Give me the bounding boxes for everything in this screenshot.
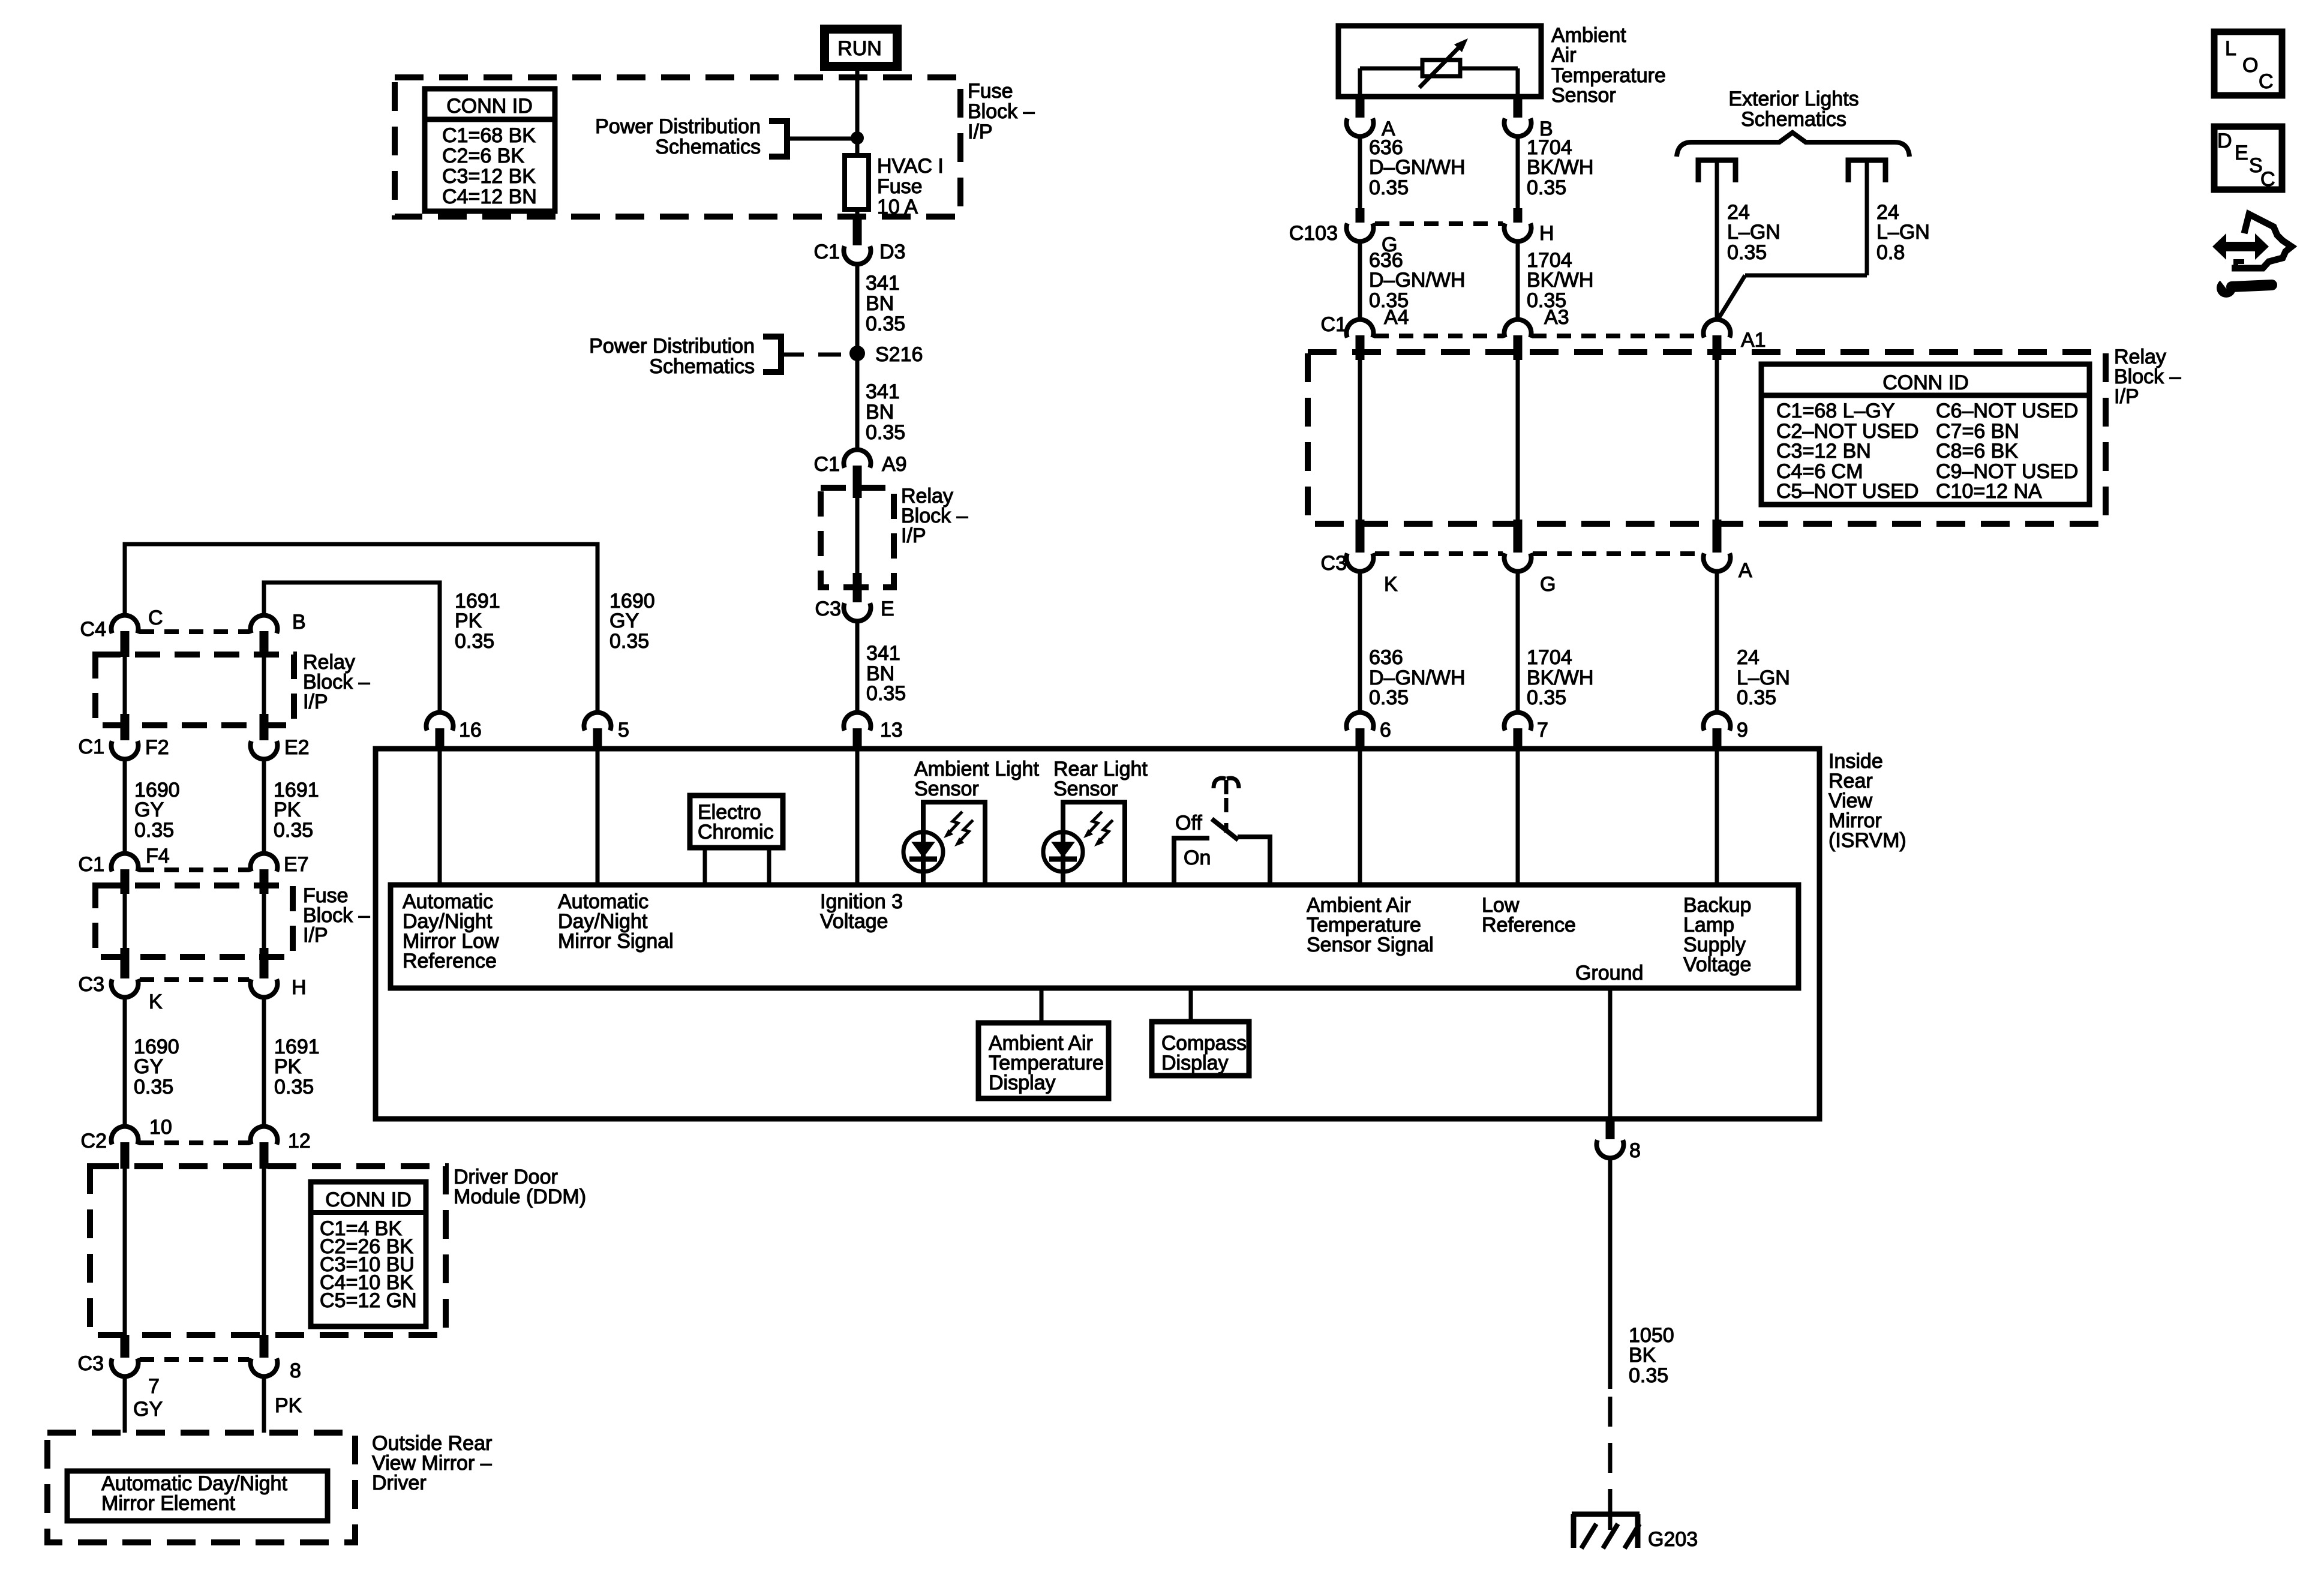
svg-text:9: 9 <box>1737 719 1748 742</box>
exterior lights schematics label <box>1728 88 1858 131</box>
svg-text:I/P: I/P <box>303 924 328 947</box>
pin function label: ambient air temperature sensor signal <box>1307 894 1434 956</box>
ISRVM label <box>1828 750 1906 852</box>
CONN ID table (fuse block) <box>425 89 555 211</box>
vehicle outline icon <box>2232 214 2292 268</box>
svg-text:C5=12 GN: C5=12 GN <box>320 1289 417 1312</box>
svg-text:PK: PK <box>274 798 301 821</box>
pin function label: low reference <box>1482 894 1576 936</box>
svg-text:RUN: RUN <box>837 37 882 60</box>
svg-text:D–GN/WH: D–GN/WH <box>1369 156 1466 179</box>
svg-text:BN: BN <box>866 292 894 315</box>
rear light sensor photodiode <box>1043 802 1125 886</box>
wire 1690 GY 0.35 (F2 to F4) <box>125 761 180 852</box>
svg-text:341: 341 <box>866 380 900 403</box>
wire 1704 BK/WH 0.35 (B to C103) <box>1518 136 1593 209</box>
wire 1691 PK 0.35 (pin 16 to B) <box>264 583 500 711</box>
svg-text:PK: PK <box>275 1394 302 1417</box>
svg-text:I/P: I/P <box>303 691 328 713</box>
svg-text:C4=12 BN: C4=12 BN <box>442 185 537 208</box>
connector pin B (AAT sensor) <box>1505 98 1553 140</box>
svg-text:BK: BK <box>1629 1344 1656 1367</box>
svg-text:E7: E7 <box>284 853 309 876</box>
wire PK (8 to mirror) <box>264 1378 302 1433</box>
relay block label (right) <box>2114 346 2181 408</box>
power distribution schematics callout 1 <box>595 115 857 158</box>
wire 341 BN 0.35 lower <box>857 623 906 711</box>
ambient light sensor photodiode <box>903 802 985 886</box>
svg-text:C8=6 BK: C8=6 BK <box>1936 440 2018 463</box>
svg-text:0.35: 0.35 <box>866 313 905 335</box>
connector C3 A (right) <box>1704 520 1753 582</box>
svg-text:A1: A1 <box>1741 329 1766 352</box>
connector C103 G <box>1289 208 1398 256</box>
svg-text:C3=12 BK: C3=12 BK <box>442 165 536 188</box>
off-page terminal right (exterior lights) <box>1848 160 1885 182</box>
svg-text:Fuse: Fuse <box>968 80 1013 103</box>
electro chromic element <box>690 795 783 885</box>
fuse block label (left) <box>303 884 370 947</box>
ISRVM pin label bar <box>391 885 1798 988</box>
svg-text:Driver: Driver <box>372 1472 427 1494</box>
svg-text:C3: C3 <box>1321 552 1347 575</box>
internal wires pins to bar <box>440 751 1717 885</box>
CONN ID table (DDM) <box>311 1182 426 1326</box>
dashed connector line C103 <box>1375 221 1503 226</box>
pin function label: backup lamp supply voltage <box>1683 894 1751 976</box>
ambient air temperature display <box>978 990 1109 1098</box>
svg-text:Mirror Element: Mirror Element <box>101 1492 235 1515</box>
svg-text:13: 13 <box>880 719 903 742</box>
svg-text:B: B <box>292 611 306 634</box>
connector C1 E7 <box>251 853 309 894</box>
svg-text:0.35: 0.35 <box>866 682 906 705</box>
connector C1 E2 <box>251 714 310 759</box>
driver door module label <box>454 1166 586 1208</box>
wire 1690 GY 0.35 (K to 10) <box>125 999 179 1125</box>
wire 1691 PK 0.35 (E2 to E7) <box>264 761 319 852</box>
svg-text:K: K <box>149 990 163 1013</box>
svg-text:C1: C1 <box>1321 313 1347 336</box>
svg-text:6: 6 <box>1380 719 1391 742</box>
connector C1 A1 <box>1704 320 1766 360</box>
svg-text:BN: BN <box>866 401 894 424</box>
connector C1 A4 <box>1321 306 1409 360</box>
svg-text:F2: F2 <box>145 736 169 759</box>
svg-text:GY: GY <box>609 610 639 632</box>
svg-text:24: 24 <box>1737 646 1759 669</box>
svg-text:A4: A4 <box>1384 306 1409 329</box>
connector C1 F4 <box>79 845 170 894</box>
svg-text:Exterior Lights: Exterior Lights <box>1728 88 1858 110</box>
svg-text:0.35: 0.35 <box>1727 241 1767 264</box>
svg-text:0.35: 0.35 <box>1369 176 1409 199</box>
wire 636 D-GN/WH 0.35 (A to C103) <box>1360 136 1466 209</box>
svg-text:Schematics: Schematics <box>655 136 761 158</box>
svg-text:(ISRVM): (ISRVM) <box>1828 829 1906 852</box>
pin 5 connector <box>584 713 629 751</box>
svg-text:5: 5 <box>618 719 629 742</box>
compass display <box>1152 990 1249 1076</box>
svg-text:D: D <box>2217 130 2232 152</box>
svg-text:E2: E2 <box>284 736 310 759</box>
svg-text:C3: C3 <box>79 973 104 996</box>
svg-text:Off: Off <box>1175 812 1202 834</box>
svg-text:0.35: 0.35 <box>1527 176 1566 199</box>
svg-text:Fuse: Fuse <box>877 175 923 198</box>
svg-text:CONN ID: CONN ID <box>446 95 533 118</box>
svg-text:0.35: 0.35 <box>455 630 494 653</box>
connector C3 7 <box>78 1335 160 1398</box>
ground G203 <box>1572 1509 1698 1551</box>
dashed connector line C1 row <box>1374 334 1703 338</box>
connector C103 H <box>1505 208 1554 245</box>
relay block label (center) <box>901 485 968 547</box>
svg-text:Power Distribution: Power Distribution <box>595 115 761 138</box>
svg-text:0.8: 0.8 <box>1876 241 1905 264</box>
svg-text:C3: C3 <box>78 1352 104 1375</box>
svg-text:1704: 1704 <box>1527 646 1572 669</box>
connector C1 F2 <box>79 714 169 759</box>
relay block I/P dashed box (left) <box>95 655 294 725</box>
variable resistor element R (AAT sensor) <box>1360 38 1518 97</box>
svg-text:BK/WH: BK/WH <box>1527 269 1593 292</box>
LOC icon <box>2214 32 2282 95</box>
svg-text:C: C <box>2260 168 2275 191</box>
svg-text:H: H <box>292 976 307 999</box>
dashed connector line C1 F4 row <box>140 867 249 872</box>
wire 636 D-GN/WH 0.35 (to pin 6) <box>1360 573 1466 711</box>
wires through relay block (left) <box>125 657 264 715</box>
wire 24 L-GN 0.8 (exterior lights) <box>1718 160 1930 319</box>
svg-text:G: G <box>1540 573 1556 596</box>
DESC icon <box>2214 127 2282 191</box>
connector C3 H (left) <box>251 948 307 999</box>
wire 341 BN 0.35 mid <box>866 380 905 444</box>
wire 636 D-GN/WH 0.35 (C103 to C1) <box>1360 243 1466 318</box>
svg-text:C1: C1 <box>79 853 104 876</box>
svg-text:Reference: Reference <box>403 950 497 972</box>
svg-text:0.35: 0.35 <box>609 630 649 653</box>
connector C2 10 <box>81 1116 172 1169</box>
svg-text:Block –: Block – <box>968 100 1035 123</box>
wire RUN to fuse <box>855 71 860 157</box>
off/on switch <box>1174 778 1270 887</box>
svg-text:0.35: 0.35 <box>1369 686 1409 709</box>
pin function label: automatic day/night mirror low reference <box>403 890 499 972</box>
svg-text:8: 8 <box>290 1359 301 1382</box>
svg-text:I/P: I/P <box>2114 385 2139 408</box>
svg-text:7: 7 <box>148 1375 160 1398</box>
connector pin A (AAT sensor) <box>1347 98 1396 140</box>
wires through DDM <box>125 1169 264 1335</box>
relay block label (left) <box>303 651 370 713</box>
outside rear view mirror driver dashed box <box>47 1433 355 1542</box>
svg-text:0.35: 0.35 <box>1629 1364 1668 1387</box>
svg-text:HVAC I: HVAC I <box>877 155 944 178</box>
svg-text:Mirror Signal: Mirror Signal <box>558 930 674 953</box>
fuse block I/P dashed box <box>395 77 960 217</box>
svg-text:On: On <box>1184 846 1211 869</box>
relay block I/P dashed box (right) <box>1308 352 2106 524</box>
svg-text:E: E <box>2235 142 2248 164</box>
svg-text:C6–NOT USED: C6–NOT USED <box>1936 400 2078 422</box>
CONN ID table (relay block) <box>1761 364 2089 505</box>
svg-text:H: H <box>1539 222 1554 245</box>
dashed connector line C3 row <box>1375 551 1702 556</box>
wire 1704 BK/WH 0.35 (to pin 7) <box>1518 573 1593 711</box>
svg-text:10 A: 10 A <box>877 196 918 218</box>
svg-text:0.35: 0.35 <box>134 1076 173 1098</box>
svg-text:0.35: 0.35 <box>274 1076 314 1098</box>
svg-text:E: E <box>881 598 894 620</box>
ambient light sensor label <box>914 758 1039 800</box>
dashed ground wire <box>1608 1397 1613 1512</box>
svg-text:Voltage: Voltage <box>820 910 888 933</box>
pin 13 connector <box>844 713 903 751</box>
svg-text:10: 10 <box>149 1116 172 1139</box>
wires through relay block <box>1360 360 1717 522</box>
wrench icon <box>2216 275 2272 298</box>
svg-text:C3: C3 <box>815 598 841 620</box>
svg-text:Chromic: Chromic <box>698 821 774 843</box>
svg-text:0.35: 0.35 <box>274 819 313 842</box>
svg-text:L–GN: L–GN <box>1727 221 1780 244</box>
pin 9 connector <box>1704 713 1748 751</box>
ignition switch RUN box <box>825 29 897 67</box>
wire 1704 BK/WH 0.35 (C103 to C1) <box>1518 243 1593 318</box>
off-page terminal left (exterior lights) <box>1698 160 1736 182</box>
outside rear view mirror label <box>372 1432 492 1494</box>
connector C3 G (right) <box>1505 520 1556 596</box>
fuse block label <box>968 80 1035 143</box>
svg-text:Sensor Signal: Sensor Signal <box>1307 933 1434 956</box>
connector C1 D3 <box>814 218 906 264</box>
svg-text:I/P: I/P <box>901 524 926 547</box>
svg-text:C1: C1 <box>79 736 104 758</box>
svg-text:L–GN: L–GN <box>1876 221 1930 244</box>
svg-text:F4: F4 <box>146 845 170 867</box>
inside rear view mirror ISRVM box <box>376 749 1819 1119</box>
svg-text:C2: C2 <box>81 1130 107 1152</box>
svg-text:Schematics: Schematics <box>649 355 755 378</box>
svg-text:C1=68 L–GY: C1=68 L–GY <box>1776 400 1895 422</box>
dashed connector line C4 row <box>140 629 249 634</box>
wire 1690 GY 0.35 (pin 5 to C) <box>125 544 655 711</box>
svg-text:Display: Display <box>989 1071 1055 1094</box>
svg-text:636: 636 <box>1369 646 1403 669</box>
svg-text:GY: GY <box>134 1055 163 1078</box>
svg-text:Display: Display <box>1161 1052 1228 1074</box>
svg-text:Air: Air <box>1551 44 1577 67</box>
svg-text:341: 341 <box>866 642 900 665</box>
wire 24 L-GN 0.35 (exterior lights) <box>1717 160 1780 318</box>
svg-text:Sensor: Sensor <box>914 778 979 800</box>
wire GY (7 to mirror) <box>125 1378 163 1433</box>
svg-text:CONN ID: CONN ID <box>325 1188 412 1211</box>
svg-text:341: 341 <box>866 272 900 295</box>
svg-text:S216: S216 <box>875 343 923 366</box>
svg-text:8: 8 <box>1629 1139 1641 1162</box>
pin 6 connector <box>1347 713 1391 751</box>
svg-text:C10=12 NA: C10=12 NA <box>1936 480 2042 503</box>
direction arrow icon <box>2212 233 2269 260</box>
connector C4 C <box>80 607 163 657</box>
svg-text:C1: C1 <box>814 241 840 263</box>
svg-text:G203: G203 <box>1648 1528 1698 1551</box>
power distribution schematics callout 2 <box>589 335 847 378</box>
wire 1691 PK 0.35 (H to 12) <box>264 999 320 1125</box>
svg-text:A9: A9 <box>882 453 907 476</box>
svg-text:A: A <box>1739 559 1752 582</box>
svg-text:0.35: 0.35 <box>866 421 905 444</box>
fuse HVAC I 10 A <box>845 155 944 218</box>
svg-text:D3: D3 <box>879 241 905 263</box>
wire 1050 BK 0.35 <box>1610 1160 1674 1389</box>
rear light sensor label <box>1053 758 1148 800</box>
svg-text:D–GN/WH: D–GN/WH <box>1369 269 1466 292</box>
svg-text:GY: GY <box>133 1398 163 1421</box>
wire 24 L-GN 0.35 (to pin 9) <box>1717 573 1790 711</box>
wires through fuse block (left) <box>125 894 264 949</box>
connector C4 B <box>251 611 306 657</box>
svg-text:Voltage: Voltage <box>1683 953 1751 976</box>
pin function label: ignition 3 voltage <box>820 890 903 933</box>
svg-text:0.35: 0.35 <box>1737 686 1776 709</box>
ground wire inside ISRVM <box>1608 990 1613 1119</box>
svg-text:16: 16 <box>459 719 482 742</box>
svg-text:12: 12 <box>288 1130 311 1152</box>
automatic day/night mirror element <box>67 1471 328 1521</box>
svg-text:Module (DDM): Module (DDM) <box>454 1185 586 1208</box>
svg-text:A3: A3 <box>1544 306 1569 329</box>
wire 341 BN 0.35 upper <box>857 266 905 448</box>
svg-text:0.35: 0.35 <box>134 819 174 842</box>
wire fuse to C1 D3 <box>855 209 860 221</box>
connector C3 K (right) <box>1321 520 1398 596</box>
svg-text:C103: C103 <box>1289 222 1338 245</box>
svg-text:0.35: 0.35 <box>1527 686 1566 709</box>
dashed connector line C3 left row <box>140 977 249 982</box>
connector C1 A3 <box>1505 306 1569 360</box>
svg-text:Ground: Ground <box>1575 962 1643 984</box>
connector C2 12 <box>251 1127 311 1169</box>
ambient air temperature sensor <box>1338 24 1666 107</box>
dashed connector line C2 row <box>140 1140 249 1145</box>
svg-text:C4: C4 <box>80 618 106 641</box>
dashed connector line C3 7/8 row <box>140 1357 249 1362</box>
connector C3 E <box>815 573 894 621</box>
wire through relay block <box>855 498 860 575</box>
svg-text:C3=12 BN: C3=12 BN <box>1776 440 1871 463</box>
svg-text:Schematics: Schematics <box>1741 108 1846 131</box>
svg-text:7: 7 <box>1537 719 1548 742</box>
svg-text:C: C <box>148 607 163 629</box>
pin 7 connector <box>1505 713 1548 751</box>
connector C3 K (left) <box>79 948 163 1013</box>
svg-text:C: C <box>2259 70 2274 93</box>
relay block I/P small dashed box (center) <box>821 488 894 587</box>
connector C3 8 <box>251 1335 301 1382</box>
fuse block I/P dashed box (left) <box>95 885 293 957</box>
pin 16 connector <box>427 713 482 751</box>
svg-text:PK: PK <box>274 1055 302 1078</box>
pin function label: automatic day/night mirror signal <box>558 890 674 953</box>
svg-text:Reference: Reference <box>1482 914 1576 936</box>
svg-text:C1=68 BK: C1=68 BK <box>442 124 536 147</box>
svg-text:Sensor: Sensor <box>1053 778 1118 800</box>
svg-text:C5–NOT USED: C5–NOT USED <box>1776 480 1918 503</box>
svg-text:C2=6 BK: C2=6 BK <box>442 145 524 167</box>
svg-text:L: L <box>2225 37 2236 60</box>
junction node <box>851 131 864 145</box>
brace (exterior lights) <box>1677 133 1909 157</box>
svg-text:I/P: I/P <box>968 121 993 143</box>
svg-text:Sensor: Sensor <box>1551 84 1616 107</box>
svg-text:K: K <box>1384 573 1398 596</box>
svg-text:Power Distribution: Power Distribution <box>589 335 755 358</box>
svg-text:CONN ID: CONN ID <box>1882 371 1969 394</box>
pin 8 connector (ground) <box>1597 1119 1641 1162</box>
connector C1 A9 <box>814 450 907 498</box>
splice S216 <box>849 343 923 366</box>
svg-text:C1: C1 <box>814 453 840 476</box>
svg-text:PK: PK <box>455 610 482 632</box>
driver door module dashed box <box>90 1166 446 1335</box>
svg-text:GY: GY <box>134 798 164 821</box>
svg-text:O: O <box>2242 54 2258 77</box>
svg-text:BK/WH: BK/WH <box>1527 156 1593 179</box>
